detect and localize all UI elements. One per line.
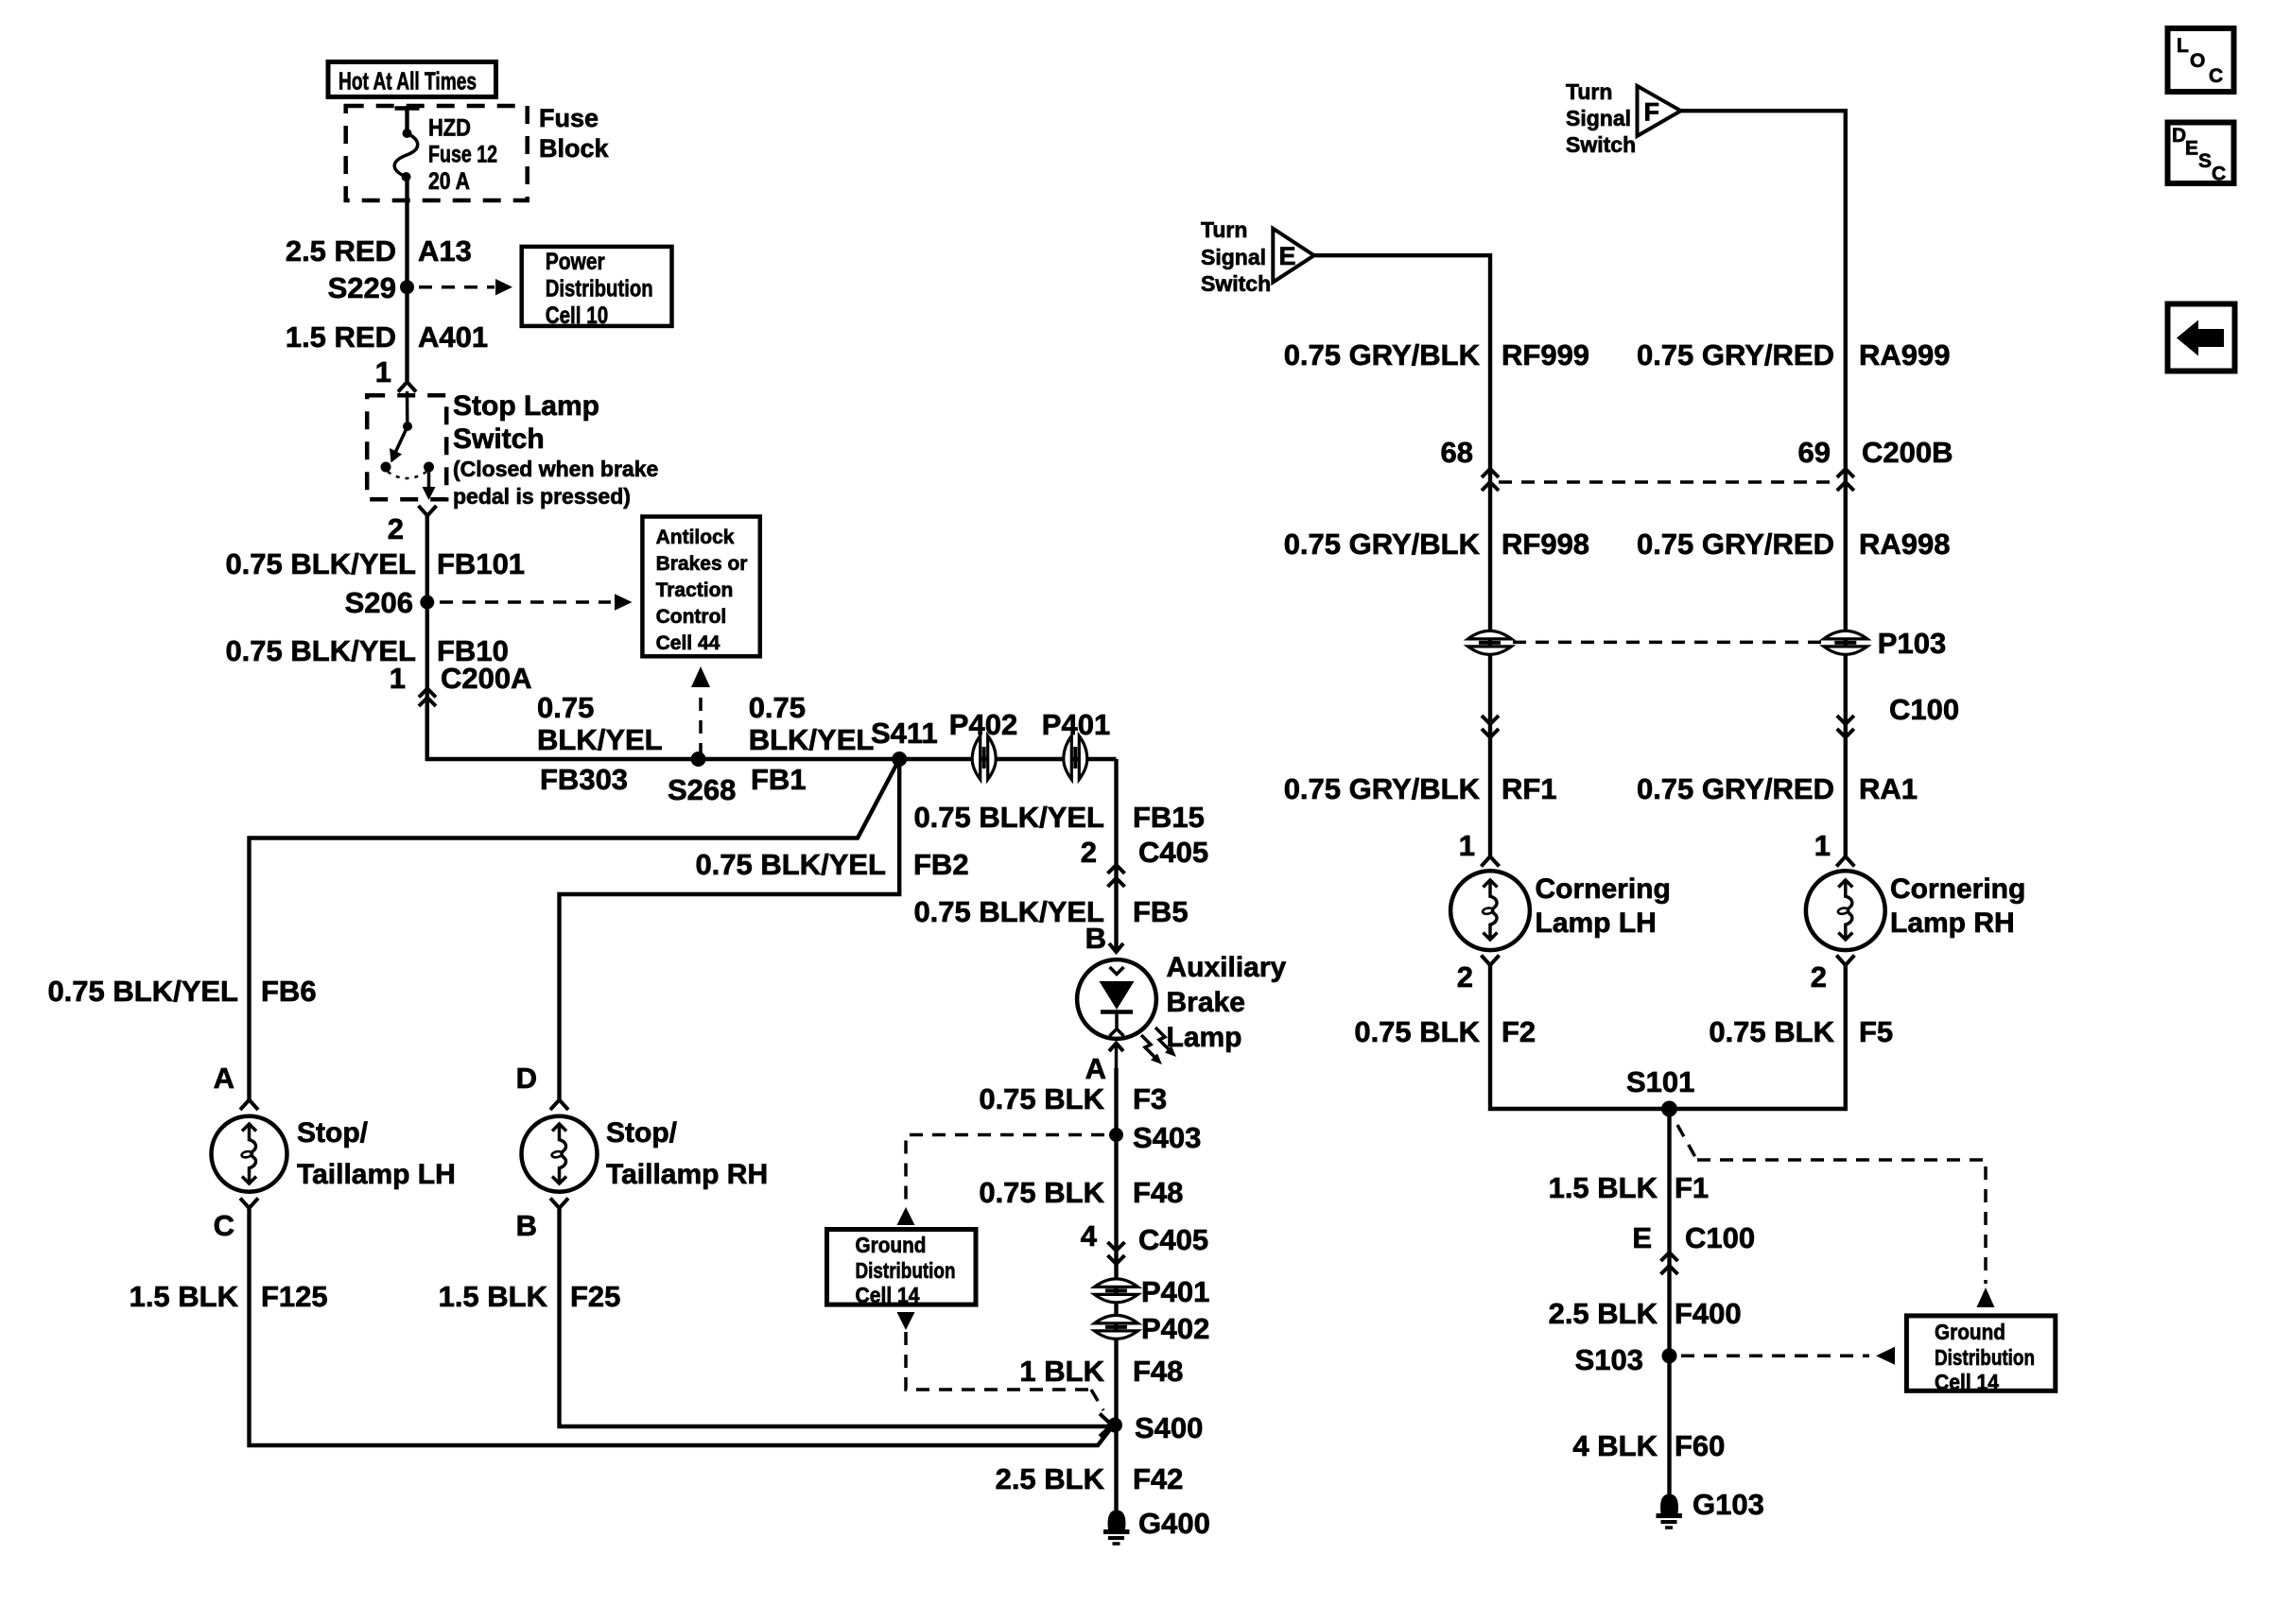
svg-text:0.75 GRY/RED: 0.75 GRY/RED — [1637, 772, 1834, 805]
connector chevron pin 2 — [419, 506, 437, 516]
svg-text:F48: F48 — [1133, 1176, 1183, 1209]
svg-text:C: C — [2209, 65, 2223, 87]
connector chevron — [1482, 856, 1500, 867]
label 0.75 BLK F5 — [1709, 1015, 1893, 1048]
svg-text:0.75 BLK: 0.75 BLK — [979, 1176, 1104, 1209]
svg-text:B: B — [1085, 922, 1106, 955]
inline connector P401 (lower) — [1095, 1275, 1210, 1308]
pin 69 C200B label — [1798, 436, 1953, 469]
svg-text:F25: F25 — [570, 1280, 620, 1313]
svg-text:pedal is pressed): pedal is pressed) — [453, 484, 631, 509]
connector C200B chevrons (right) — [1837, 469, 1854, 491]
svg-text:S101: S101 — [1626, 1065, 1694, 1098]
svg-text:Distribution: Distribution — [1935, 1345, 2035, 1370]
dashed line from S268 up to Antilock box arrow — [691, 666, 710, 756]
label 0.75 BLK/YEL FB10 — [225, 634, 508, 667]
svg-text:C100: C100 — [1889, 693, 1959, 726]
wire A13 — [405, 177, 408, 381]
svg-text:C: C — [2212, 164, 2226, 185]
svg-text:G103: G103 — [1692, 1488, 1764, 1521]
svg-text:RF1: RF1 — [1502, 772, 1557, 805]
label 0.75 BLK F3 — [979, 1082, 1167, 1115]
svg-text:Fuse: Fuse — [539, 104, 599, 132]
svg-text:Brakes or: Brakes or — [656, 553, 748, 575]
svg-text:(Closed when brake: (Closed when brake — [453, 457, 658, 481]
svg-text:Cornering: Cornering — [1890, 873, 2025, 905]
svg-text:Switch: Switch — [453, 423, 545, 455]
svg-text:RA998: RA998 — [1859, 527, 1951, 561]
label 2.5 RED A13 — [286, 234, 472, 268]
svg-text:Cell 10: Cell 10 — [546, 302, 609, 329]
svg-text:F1: F1 — [1675, 1171, 1709, 1204]
svg-text:F60: F60 — [1675, 1429, 1725, 1462]
svg-text:E: E — [1632, 1221, 1652, 1254]
dashed reference S103 to Ground Distribution box — [1681, 1347, 1895, 1365]
splice S101 — [1626, 1065, 1694, 1117]
svg-text:69: 69 — [1798, 436, 1831, 469]
svg-text:68: 68 — [1441, 436, 1473, 469]
label 1 BLK F48 — [1019, 1355, 1183, 1388]
splice S268 — [668, 752, 736, 806]
svg-text:0.75 BLK: 0.75 BLK — [1354, 1015, 1480, 1048]
svg-text:1: 1 — [390, 662, 406, 695]
connector C405 double chevron — [1108, 865, 1125, 887]
svg-text:1 BLK: 1 BLK — [1019, 1355, 1104, 1388]
svg-text:RA999: RA999 — [1859, 338, 1951, 371]
pin E C100 label — [1632, 1221, 1755, 1254]
wire RF999 — [1314, 255, 1490, 855]
label 0.75 GRY/BLK RF999 — [1284, 338, 1589, 371]
label 0.75 BLK/YEL FB1 S411 — [749, 691, 938, 796]
svg-text:HZD: HZD — [428, 115, 471, 142]
arrow into lamp pin A — [1109, 1044, 1123, 1069]
svg-text:F2: F2 — [1502, 1015, 1536, 1048]
svg-text:C200A: C200A — [441, 662, 532, 695]
ground G400 — [1103, 1507, 1210, 1544]
DESC icon box — [2168, 123, 2234, 185]
svg-text:Ground: Ground — [856, 1233, 927, 1257]
svg-text:E: E — [2185, 138, 2198, 160]
svg-text:O: O — [2190, 50, 2205, 72]
svg-text:2: 2 — [1081, 836, 1097, 869]
svg-text:0.75 BLK/YEL: 0.75 BLK/YEL — [47, 975, 238, 1008]
svg-text:FB6: FB6 — [261, 975, 317, 1008]
wire F5 — [1670, 965, 1846, 1109]
svg-text:C405: C405 — [1138, 836, 1208, 869]
inline connector P103 (left) — [1468, 631, 1512, 654]
connector chevron pin 2 — [1836, 956, 1854, 966]
svg-text:FB15: FB15 — [1133, 801, 1205, 834]
Ground Distribution Cell 14 box (right) — [1906, 1316, 2055, 1394]
light rays — [1141, 1028, 1176, 1064]
svg-text:Hot At All Times: Hot At All Times — [338, 67, 477, 95]
ground G103 — [1657, 1488, 1764, 1528]
svg-text:C100: C100 — [1685, 1221, 1755, 1254]
wire RA999 — [1681, 111, 1846, 855]
svg-text:0.75 GRY/RED: 0.75 GRY/RED — [1637, 527, 1834, 561]
wire FB101 — [425, 516, 429, 760]
svg-text:0.75 BLK/YEL: 0.75 BLK/YEL — [913, 895, 1104, 928]
svg-text:1.5 BLK: 1.5 BLK — [130, 1280, 239, 1313]
label 0.75 BLK/YEL FB15 — [913, 801, 1204, 834]
svg-text:A401: A401 — [418, 320, 488, 354]
svg-text:Antilock: Antilock — [656, 527, 735, 548]
svg-text:F48: F48 — [1133, 1355, 1183, 1388]
inline connector P402 (lower) — [1095, 1312, 1210, 1345]
label 1.5 BLK F25 — [439, 1280, 621, 1313]
connector chevron pin B — [550, 1199, 568, 1209]
svg-text:F5: F5 — [1859, 1015, 1893, 1048]
connector C100 chevrons (left) — [1482, 716, 1499, 737]
svg-text:2.5 BLK: 2.5 BLK — [1549, 1297, 1658, 1330]
svg-text:BLK/YEL: BLK/YEL — [749, 723, 875, 756]
svg-text:Fuse 12: Fuse 12 — [428, 142, 497, 168]
dashed reference line S403 to Ground Distribution — [897, 1135, 1105, 1226]
svg-text:D: D — [2172, 125, 2186, 147]
svg-text:F42: F42 — [1133, 1462, 1183, 1495]
wire F125 — [250, 1208, 1113, 1445]
connector C200A double chevron — [419, 689, 436, 707]
svg-text:1.5 BLK: 1.5 BLK — [1549, 1171, 1658, 1204]
wire FB15 — [1114, 759, 1118, 952]
svg-text:C405: C405 — [1138, 1223, 1208, 1256]
svg-text:0.75 BLK/YEL: 0.75 BLK/YEL — [225, 547, 416, 580]
label 0.75 BLK F48 — [979, 1176, 1183, 1209]
connector chevron pin D — [550, 1100, 568, 1111]
svg-text:0.75 BLK: 0.75 BLK — [979, 1082, 1104, 1115]
svg-text:Turn: Turn — [1566, 79, 1612, 104]
inline connector P103 (right) — [1824, 627, 1946, 660]
svg-text:Block: Block — [539, 134, 610, 163]
label 0.75 BLK/YEL FB303 — [537, 691, 663, 796]
Fuse Block label — [539, 104, 610, 163]
lamp Stop/Taillamp RH — [522, 1116, 598, 1192]
dashed reference line Ground Distribution to S400 — [897, 1312, 1113, 1437]
connector chevron pin 2 — [1482, 956, 1500, 966]
label 0.75 BLK/YEL FB6 — [47, 975, 316, 1008]
svg-text:P401: P401 — [1042, 708, 1110, 741]
svg-text:G400: G400 — [1138, 1507, 1210, 1540]
svg-text:0.75 GRY/RED: 0.75 GRY/RED — [1637, 338, 1834, 371]
svg-text:Cell 14: Cell 14 — [1935, 1370, 1999, 1394]
connector C100 double chevron — [1661, 1253, 1678, 1274]
fuse block dashed box — [346, 106, 528, 200]
svg-text:0.75 GRY/BLK: 0.75 GRY/BLK — [1284, 338, 1481, 371]
svg-text:S229: S229 — [328, 271, 396, 304]
svg-text:P103: P103 — [1878, 627, 1946, 660]
Hot At All Times label box — [328, 62, 496, 97]
svg-text:Control: Control — [656, 606, 727, 628]
svg-text:1: 1 — [1459, 829, 1475, 862]
dashed reference arrow to Power Distribution — [419, 279, 512, 295]
svg-text:Turn: Turn — [1201, 217, 1247, 242]
pin 4 C405 label — [1081, 1219, 1208, 1256]
connector C200B chevrons (left) — [1482, 469, 1499, 491]
svg-text:S411: S411 — [871, 717, 938, 750]
svg-text:F125: F125 — [261, 1280, 328, 1313]
Stop/Taillamp RH label — [606, 1117, 768, 1190]
svg-text:FB101: FB101 — [437, 547, 525, 580]
svg-text:1.5 RED: 1.5 RED — [286, 320, 396, 354]
svg-text:Stop/: Stop/ — [606, 1117, 678, 1149]
svg-text:Cell 14: Cell 14 — [856, 1283, 920, 1307]
Ground Distribution Cell 14 box (left) — [827, 1230, 977, 1308]
svg-text:0.75 BLK/YEL: 0.75 BLK/YEL — [225, 634, 416, 667]
svg-text:1: 1 — [375, 355, 391, 389]
svg-text:E: E — [1279, 242, 1296, 270]
svg-text:4: 4 — [1081, 1219, 1098, 1253]
splice S403 — [1109, 1121, 1201, 1154]
svg-text:1.5 BLK: 1.5 BLK — [439, 1280, 548, 1313]
wire F25 — [560, 1208, 1116, 1426]
connector chevron pin 1 — [398, 382, 416, 392]
inline connector P401 — [1042, 708, 1110, 780]
splice S229 — [328, 271, 414, 304]
connector C405 double chevron down — [1108, 1242, 1125, 1264]
label 0.75 GRY/RED RA999 — [1637, 338, 1951, 371]
label 4 BLK F60 — [1572, 1429, 1725, 1462]
lamp Cornering Lamp LH — [1450, 871, 1530, 950]
svg-text:P402: P402 — [1141, 1312, 1209, 1345]
svg-text:2: 2 — [388, 512, 404, 545]
svg-text:0.75: 0.75 — [537, 691, 594, 724]
label 1.5 RED A401 — [286, 320, 488, 354]
svg-text:RF999: RF999 — [1502, 338, 1589, 371]
label 2.5 BLK F42 — [996, 1462, 1184, 1495]
label 0.75 GRY/BLK RF1 — [1284, 772, 1557, 805]
svg-text:C200B: C200B — [1862, 436, 1953, 469]
svg-text:4 BLK: 4 BLK — [1572, 1429, 1658, 1462]
wire F2 — [1490, 965, 1670, 1109]
svg-text:Signal: Signal — [1566, 106, 1631, 130]
svg-text:Distribution: Distribution — [856, 1258, 956, 1283]
svg-text:2: 2 — [1811, 960, 1827, 993]
svg-text:2.5 RED: 2.5 RED — [286, 234, 396, 268]
svg-text:2: 2 — [1457, 960, 1473, 993]
svg-text:20 A: 20 A — [428, 168, 470, 195]
svg-text:L: L — [2177, 35, 2189, 57]
svg-text:0.75: 0.75 — [749, 691, 806, 724]
svg-text:S: S — [2198, 150, 2212, 172]
wire F1/F400/F60 — [1667, 1109, 1671, 1495]
svg-text:C: C — [214, 1209, 234, 1242]
svg-text:0.75 BLK: 0.75 BLK — [1709, 1015, 1834, 1048]
wire FB303/FB1 — [427, 705, 1117, 759]
svg-text:B: B — [516, 1209, 537, 1242]
svg-text:Switch: Switch — [1566, 132, 1636, 157]
back arrow icon box — [2168, 304, 2235, 371]
dashed connector line P103 — [1513, 641, 1823, 645]
Antilock Brakes or Traction Control Cell 44 box — [642, 517, 759, 657]
label 0.75 BLK/YEL FB5 — [913, 895, 1188, 928]
switch internals — [381, 391, 436, 500]
svg-text:P402: P402 — [949, 708, 1017, 741]
LOC icon box — [2168, 28, 2234, 92]
svg-text:BLK/YEL: BLK/YEL — [537, 723, 663, 756]
label 0.75 GRY/RED RA1 — [1637, 772, 1918, 805]
svg-text:S206: S206 — [345, 586, 413, 619]
label 1.5 BLK F1 — [1549, 1171, 1710, 1204]
label 1.5 BLK F125 — [130, 1280, 328, 1313]
svg-text:Taillamp LH: Taillamp LH — [297, 1159, 456, 1190]
label 2.5 BLK F400 — [1549, 1297, 1742, 1330]
svg-text:Ground: Ground — [1935, 1320, 2005, 1344]
lamp Auxiliary Brake Lamp (LED) — [1077, 959, 1156, 1039]
svg-text:2.5 BLK: 2.5 BLK — [996, 1462, 1105, 1495]
label 0.75 BLK/YEL FB101 — [225, 547, 525, 580]
svg-text:Cornering: Cornering — [1536, 873, 1671, 905]
svg-text:1: 1 — [1814, 829, 1831, 862]
svg-text:Power: Power — [546, 249, 605, 275]
svg-text:A13: A13 — [418, 234, 472, 268]
svg-text:A: A — [214, 1062, 234, 1095]
pin 1 C200A label — [390, 662, 532, 695]
lamp Cornering Lamp RH — [1806, 871, 1885, 950]
Stop/Taillamp LH label — [297, 1117, 456, 1190]
svg-text:Lamp LH: Lamp LH — [1536, 907, 1657, 939]
label 0.75 GRY/BLK RF998 — [1284, 527, 1589, 561]
svg-text:Signal: Signal — [1201, 245, 1266, 269]
Turn Signal Switch label (F) — [1566, 79, 1636, 157]
dashed connector line C200B — [1499, 480, 1837, 484]
svg-text:Lamp RH: Lamp RH — [1890, 907, 2015, 939]
wire FB6 — [250, 759, 900, 1099]
svg-text:Stop Lamp: Stop Lamp — [453, 390, 599, 422]
wire into fuse — [405, 106, 408, 132]
svg-text:Taillamp RH: Taillamp RH — [606, 1159, 768, 1190]
svg-text:FB5: FB5 — [1133, 895, 1189, 928]
off-page connector E triangle — [1273, 229, 1314, 283]
svg-text:Lamp: Lamp — [1167, 1022, 1242, 1053]
Cornering Lamp RH label — [1890, 873, 2025, 939]
wire FB2 — [560, 759, 900, 1099]
fuse HZD Fuse 12 20 A — [394, 115, 497, 196]
svg-text:FB2: FB2 — [913, 848, 969, 881]
Power Distribution Cell 10 box — [522, 247, 672, 329]
stop lamp switch dashed box — [367, 395, 446, 499]
label 0.75 BLK F2 — [1354, 1015, 1536, 1048]
svg-text:0.75 GRY/BLK: 0.75 GRY/BLK — [1284, 527, 1481, 561]
wire F3 — [1114, 1068, 1118, 1512]
svg-text:RF998: RF998 — [1502, 527, 1589, 561]
svg-text:F400: F400 — [1675, 1297, 1742, 1330]
svg-text:Traction: Traction — [656, 579, 734, 601]
svg-text:Brake: Brake — [1167, 987, 1245, 1018]
svg-text:FB303: FB303 — [540, 763, 628, 796]
label 0.75 BLK/YEL FB2 — [695, 848, 968, 881]
svg-text:F3: F3 — [1133, 1082, 1167, 1115]
svg-text:0.75 BLK/YEL: 0.75 BLK/YEL — [695, 848, 886, 881]
connector chevron pin C — [240, 1199, 258, 1209]
svg-text:F: F — [1644, 98, 1660, 127]
Turn Signal Switch label (E) — [1201, 217, 1271, 296]
svg-text:S103: S103 — [1575, 1343, 1643, 1376]
svg-text:RA1: RA1 — [1859, 772, 1918, 805]
svg-text:0.75 BLK/YEL: 0.75 BLK/YEL — [913, 801, 1104, 834]
svg-text:Stop/: Stop/ — [297, 1117, 369, 1149]
pin 2 C405 label — [1081, 836, 1208, 869]
svg-text:S403: S403 — [1133, 1121, 1201, 1154]
label 0.75 GRY/RED RA998 — [1637, 527, 1951, 561]
connector chevron — [1836, 856, 1854, 867]
splice S103 — [1575, 1343, 1677, 1376]
svg-text:Auxiliary: Auxiliary — [1167, 952, 1287, 983]
svg-text:S400: S400 — [1135, 1411, 1203, 1444]
lamp Stop/Taillamp LH — [212, 1116, 287, 1192]
arrow into lamp pin B — [1109, 943, 1123, 952]
dashed reference arrow to Antilock box — [440, 594, 633, 610]
Stop Lamp Switch label — [453, 390, 658, 509]
dashed reference from S101 to Ground Distribution (right) — [1677, 1125, 1995, 1307]
svg-text:A: A — [1085, 1052, 1106, 1085]
svg-text:Cell 44: Cell 44 — [656, 632, 720, 654]
svg-text:Switch: Switch — [1201, 271, 1271, 296]
Auxiliary Brake Lamp label — [1167, 952, 1287, 1053]
svg-text:D: D — [516, 1062, 537, 1095]
splice S400 — [1107, 1411, 1203, 1444]
off-page connector F triangle — [1638, 86, 1681, 136]
svg-text:P401: P401 — [1141, 1275, 1209, 1308]
svg-text:Distribution: Distribution — [546, 276, 653, 302]
svg-text:0.75 GRY/BLK: 0.75 GRY/BLK — [1284, 772, 1481, 805]
connector C100 chevrons (right) — [1837, 716, 1854, 737]
connector chevron pin A — [240, 1100, 258, 1111]
svg-text:S268: S268 — [668, 773, 736, 806]
inline connector P402 — [949, 708, 1017, 780]
splice S411 — [892, 752, 907, 767]
splice S206 — [345, 586, 435, 619]
Cornering Lamp LH label — [1536, 873, 1671, 939]
svg-text:FB1: FB1 — [751, 763, 807, 796]
